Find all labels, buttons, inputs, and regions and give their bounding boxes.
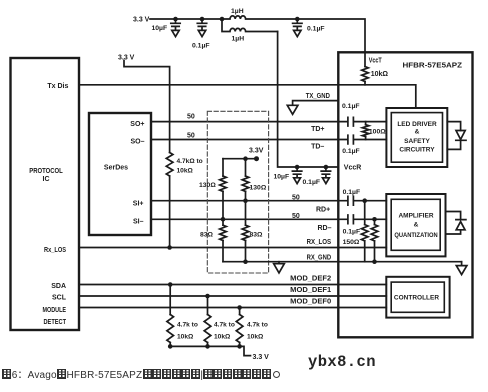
value label 4.7k to 10k (SDA) <box>177 322 198 341</box>
svg-text:0.1µF: 0.1µF <box>343 189 361 196</box>
value label 0.1uF (TD-) <box>342 148 360 155</box>
wire termination 3.3V rail <box>223 158 257 160</box>
block label PROTOCOL IC <box>29 168 63 183</box>
svg-text:10µF: 10µF <box>274 174 290 181</box>
svg-text:10kΩ: 10kΩ <box>247 333 264 340</box>
svg-text:0.1µF: 0.1µF <box>192 43 210 50</box>
wire SO- / TD- line <box>151 139 386 141</box>
wire VccT feed into module <box>297 19 365 67</box>
svg-text:10µF: 10µF <box>152 25 168 32</box>
svg-text:SerDes: SerDes <box>104 165 128 172</box>
svg-text:50: 50 <box>292 194 300 201</box>
pin label SCL <box>52 295 67 302</box>
svg-text:83Ω: 83Ω <box>250 231 264 238</box>
svg-text:50: 50 <box>187 133 195 140</box>
svg-text:MOD_DEF1: MOD_DEF1 <box>290 287 331 294</box>
impedance label 50 (RD+) <box>292 194 300 201</box>
value label 10uF (VccR) <box>274 174 290 181</box>
value label 10kOhm (VccT) <box>371 71 389 78</box>
resistor 83 (left chain) <box>220 219 227 261</box>
svg-text:0.1µF: 0.1µF <box>307 26 325 33</box>
pin label RD- <box>318 225 332 232</box>
value label 0.1uF (VccR) <box>303 179 321 186</box>
svg-text:10kΩ: 10kΩ <box>177 333 194 340</box>
svg-text:SI+: SI+ <box>133 200 144 207</box>
block label CONTROLLER <box>394 295 439 302</box>
block CONTROLLER outer <box>386 277 449 318</box>
value label 0.1uF (RD-) <box>343 229 361 236</box>
node junction 150 bottoms on RX_GND <box>372 259 377 264</box>
wire LED cathode stub <box>447 140 460 149</box>
svg-text:SO–: SO– <box>130 139 144 146</box>
wire Tx Dis <box>79 85 416 108</box>
pin label TD- <box>311 143 324 150</box>
power label 3.3V (termination) <box>249 147 264 154</box>
svg-text:RX_LOS: RX_LOS <box>307 239 332 246</box>
value label 1uH (lower inductor) <box>232 36 245 43</box>
pin label SI- <box>133 219 144 226</box>
node junction on top rail (0.1uF tap) <box>200 17 205 22</box>
wire LED anode stub <box>447 122 460 131</box>
block title HFBR-57E5APZ <box>403 60 463 69</box>
wire RX_GND rail <box>223 261 462 263</box>
pin label TD+ <box>311 126 324 133</box>
svg-text:SI–: SI– <box>133 219 144 226</box>
svg-text:3.3V: 3.3V <box>249 147 264 154</box>
value label 0.1uF (VccT feed) <box>307 26 325 33</box>
svg-text:3.3 V: 3.3 V <box>118 55 135 62</box>
svg-text:RX_GND: RX_GND <box>307 254 332 261</box>
pin label VccT <box>369 58 383 65</box>
block CONTROLLER inner <box>391 282 444 312</box>
pin label SO+ <box>130 121 144 128</box>
svg-text:0.1µF: 0.1µF <box>342 148 360 155</box>
svg-text:SO+: SO+ <box>130 121 144 128</box>
svg-text:SDA: SDA <box>51 283 66 290</box>
svg-text:VccT: VccT <box>369 58 383 65</box>
svg-text:MODULE: MODULE <box>43 307 67 314</box>
value label 0.1uF (TD+) <box>342 103 360 110</box>
svg-text:MOD_DEF0: MOD_DEF0 <box>290 298 331 305</box>
ground RX_GND (external) <box>274 262 285 273</box>
pin label MOD_DEF1 <box>290 287 331 294</box>
pin label SO- <box>130 139 144 146</box>
impedance label 50 (SO-) <box>187 133 195 140</box>
resistor 150 (RD+ termination) <box>361 201 368 262</box>
svg-text:MOD_DEF2: MOD_DEF2 <box>290 276 331 283</box>
svg-text:0.1µF: 0.1µF <box>342 103 360 110</box>
svg-text:&: & <box>414 221 419 228</box>
node junction (0.1uF at VccT feed) <box>295 17 300 22</box>
value label 100 (TD) <box>369 128 386 135</box>
svg-text:VccR: VccR <box>344 164 362 171</box>
wire SI- / RD- line <box>151 218 386 220</box>
svg-text:RD–: RD– <box>318 225 332 232</box>
svg-text:130Ω: 130Ω <box>250 184 267 191</box>
wire VccR feed (down and right to module) <box>278 32 339 168</box>
node junction VccR line (10uF tap) <box>295 165 300 170</box>
capacitor 0.1uF RD- coupling <box>348 215 354 224</box>
wire 3.3V to Rx_LOS pullup <box>124 61 170 153</box>
svg-text:4.7k to: 4.7k to <box>177 322 198 329</box>
pin label SDA <box>51 283 66 290</box>
node junction RD+ / 150 <box>362 198 367 203</box>
resistor 83 (right chain) <box>242 201 249 262</box>
photodiode D2 (receiver) <box>456 222 465 230</box>
node junction RD- / 150 <box>372 217 377 222</box>
pin label RX_GND <box>307 254 332 261</box>
capacitor 10uF (VccR bypass) <box>292 167 301 178</box>
value label 4.7k to 10k (MOD_DEF0) <box>247 322 268 341</box>
impedance label 50 (RD-) <box>292 213 300 220</box>
svg-text:0.1µF: 0.1µF <box>303 179 321 186</box>
pin label TX_GND <box>306 93 330 100</box>
power label 3.3V (Rx_LOS pullup) <box>118 55 135 62</box>
svg-text:0.1µF: 0.1µF <box>343 229 361 236</box>
node junction SCL pullup <box>205 294 210 299</box>
svg-text:4.7k to: 4.7k to <box>214 322 235 329</box>
pin label SI+ <box>133 200 144 207</box>
value label 4.7kOhm to 10kOhm <box>177 158 203 175</box>
svg-text:10kΩ: 10kΩ <box>214 333 231 340</box>
ground (10uF top) <box>172 30 179 36</box>
node junction Rx_LOS pullup <box>167 245 172 250</box>
block HFBR-57E5APZ module <box>338 52 472 337</box>
node junction pullup bottom (SDA) <box>168 344 173 349</box>
svg-text:4.7kΩ to: 4.7kΩ to <box>177 158 203 165</box>
value label 1uH (top inductor) <box>231 8 244 15</box>
dashed box termination network <box>207 111 268 273</box>
svg-text:TD–: TD– <box>311 143 324 150</box>
svg-text:SCL: SCL <box>52 295 67 302</box>
value label 0.1uF (top) <box>192 43 210 50</box>
ground (module right, RX_GND) <box>456 262 467 275</box>
resistor 4.7k-10k Rx_LOS pullup <box>166 153 173 248</box>
LED D1 (transmit LED) <box>456 131 466 141</box>
capacitor 0.1uF TD+ coupling <box>348 117 354 126</box>
block PROTOCOL IC <box>11 58 80 330</box>
svg-text:10kΩ: 10kΩ <box>371 71 389 78</box>
node junction right chain top <box>243 156 248 161</box>
resistor 4.7k-10k (SCL pullup) <box>204 296 211 346</box>
block AMPLIFIER outer <box>386 194 445 256</box>
svg-text:3.3 V: 3.3 V <box>253 354 270 361</box>
pin label MODULE DETECT <box>43 307 67 326</box>
capacitor 0.1uF top rail bypass <box>197 19 206 30</box>
node junction VccR line (0.1uF tap) <box>324 165 329 170</box>
value label 83 (left) <box>200 231 214 238</box>
node junction right chain on RD+ <box>243 198 248 203</box>
svg-text:&: & <box>415 129 420 136</box>
node junction MOD_DEF0 pullup <box>237 305 242 310</box>
capacitor 0.1uF TD- coupling <box>348 135 354 144</box>
svg-text:TD+: TD+ <box>311 126 324 133</box>
value label 83 (right) <box>250 231 264 238</box>
svg-text:100Ω: 100Ω <box>369 128 386 135</box>
value label 130 (right) <box>250 184 267 191</box>
ground TX_GND <box>287 105 298 114</box>
node junction SDA pullup <box>168 282 173 287</box>
pin label Rx_LOS <box>44 247 66 254</box>
block LED DRIVER inner <box>391 113 442 163</box>
resistor 4.7k-10k (SDA pullup) <box>167 285 174 347</box>
value label 10uF (top) <box>152 25 168 32</box>
wire Rx_LOS <box>79 247 386 249</box>
pin label RX_LOS <box>307 239 332 246</box>
resistor 100 (TD termination) <box>362 122 369 140</box>
svg-text:3.3 V: 3.3 V <box>133 16 150 23</box>
resistor 150 (RD- termination) <box>371 219 378 261</box>
svg-text:AMPLIFIER: AMPLIFIER <box>398 212 433 219</box>
svg-text:Tx Dis: Tx Dis <box>47 83 68 90</box>
node junction pullup bottom (MOD_DEF0) <box>237 344 242 349</box>
pin label MOD_DEF2 <box>290 276 331 283</box>
node junction pullup bottom (SCL) <box>205 344 210 349</box>
pin label MOD_DEF0 <box>290 298 331 305</box>
wire photodiode anode stub <box>446 231 461 234</box>
wire SO+ / TD+ line <box>151 121 386 123</box>
node junction on top rail (10uF tap) <box>173 17 178 22</box>
wire SI+ / RD+ line <box>151 200 386 202</box>
capacitor 0.1uF RD+ coupling <box>348 196 354 205</box>
svg-text:TX_GND: TX_GND <box>306 93 330 100</box>
block LED DRIVER outer <box>386 108 447 167</box>
svg-text:IC: IC <box>43 176 50 183</box>
svg-text:10kΩ: 10kΩ <box>177 168 194 175</box>
inductor L2 1uH (lower branch) <box>222 19 278 32</box>
pin label RD+ <box>316 206 330 213</box>
block AMPLIFIER inner <box>391 199 440 250</box>
svg-text:HFBR-57E5APZ: HFBR-57E5APZ <box>403 60 463 69</box>
value label 4.7k to 10k (SCL) <box>214 322 235 341</box>
resistor 130 (left chain) <box>220 159 227 220</box>
svg-text:DETECT: DETECT <box>44 319 67 326</box>
inductor L1 1uH (top branch) <box>222 16 297 19</box>
wire 3.3V top rail <box>150 18 222 20</box>
capacitor 10uF top rail bypass <box>171 19 180 30</box>
svg-text:PROTOCOL: PROTOCOL <box>29 168 63 175</box>
ground (0.1uF VccR) <box>323 178 330 184</box>
resistor 10k VccT pullup <box>362 67 369 85</box>
block label SerDes <box>104 165 128 172</box>
svg-text:83Ω: 83Ω <box>200 231 214 238</box>
watermark ybx8.cn <box>308 353 376 371</box>
svg-text:Rx_LOS: Rx_LOS <box>44 247 66 254</box>
wire TX_GND to ground <box>293 101 339 105</box>
caption figure 6 <box>2 366 280 381</box>
pin label VccR <box>344 164 362 171</box>
svg-text:150Ω: 150Ω <box>343 239 360 246</box>
svg-text:4.7k to: 4.7k to <box>247 322 268 329</box>
power label 3.3V (bottom) <box>253 354 270 361</box>
ground (0.1uF top) <box>198 30 205 36</box>
svg-text:130Ω: 130Ω <box>199 182 216 189</box>
svg-text:50: 50 <box>187 114 195 121</box>
wire photodiode cathode stub <box>446 212 466 220</box>
value label 130 (left) <box>199 182 216 189</box>
pin label Tx Dis <box>47 83 68 90</box>
svg-text:1µH: 1µH <box>232 36 245 43</box>
node junction left chain on RD- <box>221 217 226 222</box>
wire SDA / MOD_DEF2 <box>79 284 386 286</box>
svg-text:RD+: RD+ <box>316 206 330 213</box>
impedance label 50 (SO+) <box>187 114 195 121</box>
capacitor 0.1uF (VccT feed bypass) <box>293 19 302 30</box>
svg-text:QUANTIZATION: QUANTIZATION <box>394 232 438 239</box>
node junction RX_GND (right chain) <box>243 259 248 264</box>
power net 3.3V label (top left) <box>133 16 150 23</box>
value label 0.1uF (RD+) <box>343 189 361 196</box>
ground (0.1uF VccT feed) <box>294 30 301 36</box>
svg-text:CIRCUITRY: CIRCUITRY <box>399 147 435 154</box>
node junction top rail inductor split <box>220 17 225 22</box>
svg-text:50: 50 <box>292 213 300 220</box>
block label LED DRIVER & SAFETY CIRCUITRY <box>397 121 437 153</box>
svg-text:SAFETY: SAFETY <box>404 138 430 145</box>
block SerDes <box>89 113 151 235</box>
resistor 130 (right chain) <box>242 159 249 201</box>
wire SCL / MOD_DEF1 <box>79 295 386 297</box>
svg-text:LED DRIVER: LED DRIVER <box>397 121 437 128</box>
ground (10uF VccR) <box>294 178 301 184</box>
capacitor 0.1uF (VccR bypass) <box>321 167 330 178</box>
wire pullup bottom rail to 3.3V <box>170 346 250 355</box>
node terminal 3.3V (termination) <box>254 156 259 161</box>
value label 150 (RD) <box>343 239 360 246</box>
svg-text:1µH: 1µH <box>231 8 244 15</box>
resistor 4.7k-10k (MOD_DEF0 pullup) <box>236 308 243 347</box>
svg-text:CONTROLLER: CONTROLLER <box>394 295 439 302</box>
wire MODULE DETECT / MOD_DEF0 <box>79 307 386 309</box>
block label AMPLIFIER & QUANTIZATION <box>394 212 438 239</box>
